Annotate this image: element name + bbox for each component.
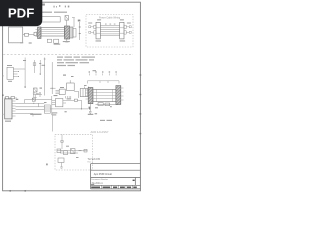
svg-text:Power Cable Wiring: Power Cable Wiring (99, 16, 121, 19)
svg-text:ACD 4-6 ASSY: ACD 4-6 ASSY (91, 130, 109, 134)
svg-text:PDF: PDF (8, 5, 34, 20)
svg-text:Apc PCB Circuit: Apc PCB Circuit (94, 173, 112, 176)
svg-text:Document Number: Document Number (91, 178, 108, 181)
svg-text:Rev 1: Rev 1 (88, 161, 94, 163)
